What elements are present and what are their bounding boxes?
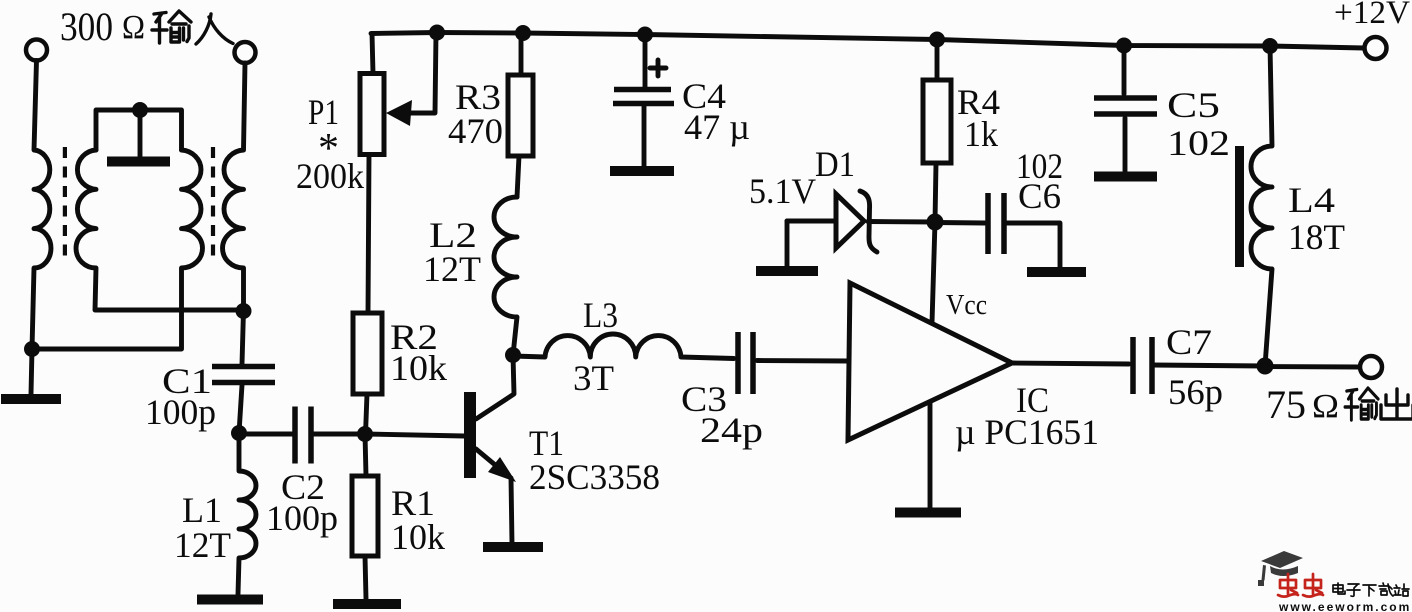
output terminal bbox=[1360, 356, 1382, 378]
svg-text:µ PC1651: µ PC1651 bbox=[955, 412, 1099, 452]
op-amp IC uPC1651 bbox=[848, 283, 1012, 440]
capacitor C5 bbox=[1122, 46, 1127, 95]
node left bottom bbox=[24, 341, 40, 357]
capacitor C3 bbox=[735, 332, 741, 394]
transformer TR1 center tap ground bar bbox=[107, 157, 170, 167]
power rail +12V wire bbox=[371, 33, 1364, 49]
transformer TR1 right outer winding bbox=[223, 63, 245, 310]
transformer TR1 inner right winding bbox=[32, 150, 202, 349]
hanzi shu (input) bbox=[152, 11, 191, 43]
zener D1 cathode bar bbox=[860, 191, 877, 252]
wire node to C2 bbox=[239, 432, 295, 437]
transformer TR1 center tap wire bbox=[138, 110, 143, 157]
svg-text:3T: 3T bbox=[573, 358, 614, 398]
node rail/C4 bbox=[637, 27, 653, 43]
node rail/R4 bbox=[929, 32, 945, 48]
svg-text:12T: 12T bbox=[174, 525, 231, 565]
+12V terminal bbox=[1365, 37, 1387, 59]
wire Vcc bbox=[932, 222, 935, 323]
ground under IC bbox=[895, 508, 961, 518]
svg-text:300: 300 bbox=[60, 4, 113, 49]
inductor L3 bbox=[513, 334, 734, 359]
potentiometer P1 body bbox=[372, 34, 373, 74]
hanzi shu (output) bbox=[1345, 388, 1378, 420]
transformer TR1 center tap node bbox=[132, 102, 148, 118]
ground under R1 bbox=[333, 599, 401, 609]
wire to C1 bbox=[242, 310, 244, 364]
svg-text:L3: L3 bbox=[583, 295, 618, 335]
svg-text:Ω: Ω bbox=[122, 9, 145, 46]
input terminal left bbox=[26, 40, 47, 61]
capacitor C1 bbox=[212, 364, 275, 370]
svg-text:12T: 12T bbox=[423, 249, 481, 289]
wire to output terminal bbox=[1265, 364, 1360, 369]
ground left bbox=[1, 394, 61, 404]
ground under L1 bbox=[197, 595, 263, 605]
wire D1 to node bbox=[868, 219, 935, 224]
watermark hanzi site name bbox=[1333, 583, 1409, 596]
svg-text:10k: 10k bbox=[391, 517, 445, 557]
inductor L4 bbox=[1251, 46, 1272, 366]
node rail/R3 bbox=[515, 25, 531, 41]
potentiometer P1 wiper bbox=[406, 33, 436, 113]
hanzi ru (input) bbox=[196, 14, 233, 44]
svg-text:+12V: +12V bbox=[1334, 0, 1410, 31]
zener D1 triangle bbox=[836, 194, 864, 248]
transistor T1 collector bbox=[476, 355, 514, 419]
transformer TR1 left core bbox=[63, 147, 67, 263]
svg-text:5.1V: 5.1V bbox=[749, 171, 816, 211]
svg-text:24p: 24p bbox=[700, 410, 763, 450]
input terminal right bbox=[235, 42, 256, 63]
capacitor C2 bbox=[292, 407, 298, 464]
resistor R3 bbox=[519, 33, 524, 75]
node rail/P1 wiper bbox=[429, 25, 445, 41]
svg-text:56p: 56p bbox=[1168, 372, 1223, 412]
watermark hanzi chongchong red bbox=[1278, 574, 1298, 597]
zener D1 anode wire bbox=[787, 219, 836, 224]
ground under T1 bbox=[483, 542, 543, 552]
svg-text:L1: L1 bbox=[182, 490, 222, 530]
wire C2 to base node bbox=[311, 432, 365, 437]
inductor L1 bbox=[238, 433, 256, 594]
svg-text:470: 470 bbox=[448, 111, 503, 151]
svg-text:100p: 100p bbox=[266, 498, 338, 538]
svg-text:C6: C6 bbox=[1018, 176, 1061, 216]
node collector bbox=[505, 347, 521, 363]
node base bbox=[357, 426, 373, 442]
wire base node to transistor bbox=[365, 434, 464, 436]
watermark cap bbox=[1258, 551, 1303, 586]
resistor R2 bbox=[368, 155, 369, 314]
svg-text:10k: 10k bbox=[390, 348, 447, 388]
svg-text:C5: C5 bbox=[1167, 85, 1220, 125]
transistor T1 base bar bbox=[464, 392, 476, 478]
wire IC out to C7 bbox=[1012, 363, 1129, 364]
svg-text:47 µ: 47 µ bbox=[684, 107, 750, 147]
node right bottom (to C1) bbox=[236, 303, 252, 319]
svg-text:www.eeworm.com: www.eeworm.com bbox=[1278, 600, 1411, 612]
transformer TR1 right core bbox=[211, 147, 215, 263]
capacitor C4 polarity bbox=[650, 60, 666, 76]
svg-text:100p: 100p bbox=[145, 392, 216, 432]
svg-text:D1: D1 bbox=[815, 144, 855, 184]
node zener/Vcc bbox=[927, 214, 944, 231]
svg-text:C7: C7 bbox=[1166, 322, 1212, 362]
transformer TR1 inner left winding bbox=[76, 150, 243, 310]
svg-text:Vcc: Vcc bbox=[946, 290, 987, 321]
svg-text:1k: 1k bbox=[964, 114, 998, 154]
svg-text:102: 102 bbox=[1167, 123, 1230, 163]
ground under C5 bbox=[1094, 172, 1157, 182]
svg-text:Ω: Ω bbox=[1312, 388, 1339, 425]
ground under D1 bbox=[756, 266, 818, 276]
capacitor C7 bbox=[1130, 337, 1136, 394]
resistor R4 bbox=[935, 40, 940, 81]
transistor T1 emitter bbox=[476, 449, 506, 474]
ground under C6 bbox=[1027, 267, 1086, 277]
capacitor C4 bbox=[643, 35, 648, 88]
node output bbox=[1257, 358, 1274, 375]
resistor R1 bbox=[365, 434, 366, 476]
svg-text:18T: 18T bbox=[1288, 217, 1345, 257]
ground under C4 bbox=[610, 166, 674, 176]
wire C3 to IC input bbox=[757, 358, 849, 363]
inductor L2 bbox=[494, 197, 517, 355]
wire node to ground bbox=[31, 349, 32, 394]
node rail/L4 bbox=[1262, 38, 1278, 54]
transformer TR1 left outer winding bbox=[32, 61, 51, 350]
wire IC ground bbox=[928, 402, 933, 508]
inductor L4 core bar bbox=[1235, 146, 1244, 267]
svg-text:200k: 200k bbox=[296, 156, 364, 196]
node C1/C2/L1 bbox=[231, 425, 247, 441]
node rail/C5 bbox=[1116, 38, 1132, 54]
hanzi chu (output) bbox=[1381, 389, 1412, 419]
capacitor C6 bbox=[985, 193, 991, 254]
wire C1 to node bbox=[239, 385, 242, 433]
wire node to C6 bbox=[935, 220, 985, 225]
transformer TR1 inner top link bbox=[96, 110, 182, 150]
svg-text:75: 75 bbox=[1266, 382, 1306, 427]
svg-text:L4: L4 bbox=[1288, 180, 1335, 220]
svg-text:2SC3358: 2SC3358 bbox=[529, 457, 660, 497]
